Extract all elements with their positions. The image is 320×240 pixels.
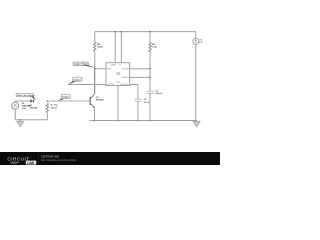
svg-text:OUTPUT: OUTPUT [107,84,115,86]
source V2 function generator [12,102,19,109]
footer divider [38,154,40,164]
wire V1 column [195,32,197,121]
flag Drive_the_trigger [16,93,36,100]
svg-text:5 V: 5 V [199,42,203,44]
node DIS junction [149,68,151,70]
wire bottom right rail [90,120,197,122]
wire C1 bottom [149,93,151,121]
svg-text:Output: Output [74,78,81,81]
wire source V2 bottom [15,109,47,120]
svg-text:http://circuitlab.com/cgh7rywk: http://circuitlab.com/cgh7rywkm8w [41,159,76,162]
node emitter rail junction [94,120,96,122]
node ground left junction [20,119,22,121]
svg-text:2N3904: 2N3904 [96,99,104,102]
svg-text:1 kΩ: 1 kΩ [152,47,157,49]
wire R_Trig bottom [46,113,48,120]
svg-text:100 Ω: 100 Ω [51,107,57,109]
svg-text:DISCHG: DISCHG [122,69,130,71]
ground left [19,120,21,122]
svg-text:LAB: LAB [27,161,35,165]
wire IC DIS to R4C1 node [130,68,150,70]
wire R2 bottom to trigger node [94,51,96,94]
wire R4 top lead [149,32,151,43]
resistor R_Trig [46,103,48,112]
wire IC CTRL to C2 [130,85,138,100]
node R4 top rail junction [149,31,151,33]
wire Q1 emitter [93,108,95,121]
resistor R4 [149,42,151,51]
svg-text:Drive_the_trigger: Drive_the_trigger [17,94,34,97]
flag Trigger [58,94,70,101]
source V1 [193,38,199,44]
svg-text:100 Ω: 100 Ω [97,47,103,49]
svg-text:RESET: RESET [111,64,117,66]
svg-text:Logic_Trigger: Logic_Trigger [74,63,88,66]
wire source V2 top [15,101,30,102]
wire Q1 collector [93,67,95,94]
capacitor C2 [135,99,142,101]
diode D1 [30,99,33,102]
svg-text:GND: GND [116,82,121,84]
wire IC V+ pin [114,32,116,63]
ground right [195,120,198,123]
wire IC RESET pin [120,32,122,63]
node V+ rail junction [114,31,116,33]
footer bar [0,152,220,165]
transistor Q1 [89,97,91,105]
node THR junction [149,77,151,79]
svg-text:R_Trig: R_Trig [51,105,58,107]
flag Logic_Trigger [73,62,95,68]
svg-text:V+: V+ [119,64,121,66]
node trigger junction [94,68,96,70]
svg-text:TRIG: TRIG [107,69,112,71]
node RESET rail junction [121,31,123,33]
svg-text:555: 555 [116,72,121,75]
resistor R2 [94,42,96,51]
flag Output [68,77,82,85]
svg-text:Trigger: Trigger [62,96,69,99]
wire C2 bottom [137,101,139,120]
svg-text:C3ST7XGR / 555: C3ST7XGR / 555 [41,157,60,159]
wire Q1 base [47,100,90,102]
wire IC GND pin [117,86,119,121]
node GND rail junction [117,120,119,122]
capacitor C1 [147,91,154,93]
svg-text:CONTROL: CONTROL [120,84,129,86]
node C2 bottom rail junction [137,120,139,122]
wire IC THR to R4C1 node [130,76,150,78]
wire trigger to IC [95,68,106,70]
ic 555 U1 box [106,63,130,86]
wire R4 bottom to C1 [149,51,151,91]
node R_Trig top junction [47,100,49,102]
svg-text:10 nF: 10 nF [144,102,150,104]
wire IC OUT [68,84,106,86]
node C1 bottom rail junction [149,120,151,122]
wire top rail [95,31,196,33]
wire R2 top lead [94,32,96,42]
svg-text:THRESH: THRESH [121,77,129,79]
svg-text:100 µF: 100 µF [155,93,163,95]
